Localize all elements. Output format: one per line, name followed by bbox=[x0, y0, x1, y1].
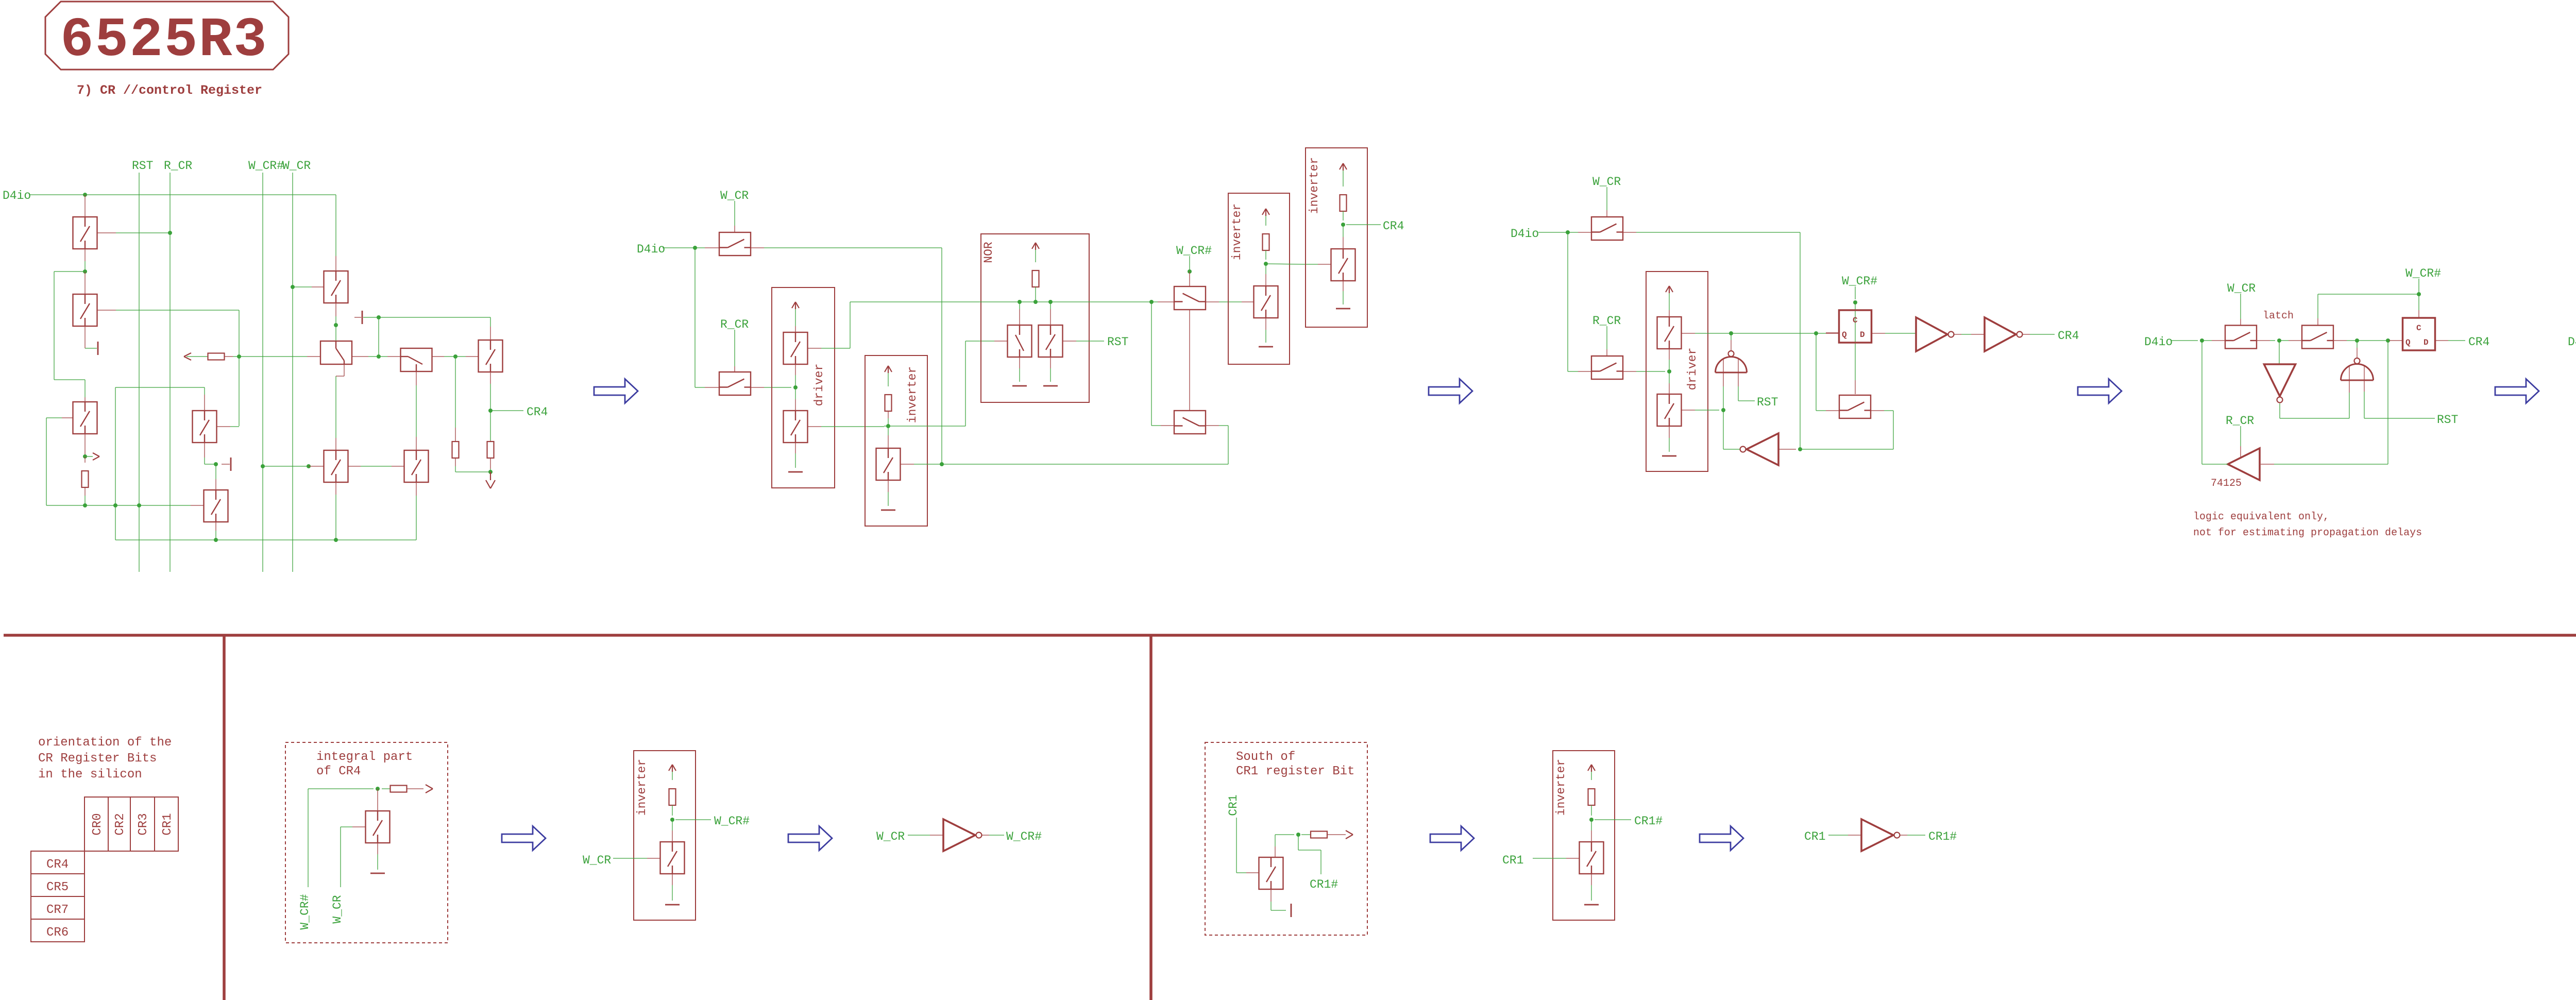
pass transistor R_CR stage3 bbox=[1591, 356, 1623, 379]
wire T3 gate from lower net bbox=[62, 417, 73, 418]
svg-text:RST: RST bbox=[1107, 335, 1128, 349]
svg-text:W_CR: W_CR bbox=[720, 189, 749, 202]
wire W_CR stem stage4 bbox=[2240, 294, 2241, 319]
svg-text:W_CR#: W_CR# bbox=[248, 159, 284, 173]
transistor T4 stage1 bbox=[193, 411, 217, 443]
wire B to latch stage4 bbox=[2333, 340, 2347, 341]
wire D4io stage2 bbox=[663, 247, 695, 248]
svg-text:CR4: CR4 bbox=[1383, 219, 1404, 233]
resistor bottom CR1 inverter bbox=[1588, 789, 1595, 805]
wire bottom rail y1048 stage1 bbox=[115, 539, 416, 540]
wire CR1 to gate south box bbox=[1236, 818, 1237, 873]
svg-text:inverter: inverter bbox=[1230, 204, 1244, 260]
power arrow driver stage3 bbox=[1666, 286, 1669, 292]
wire T8 gate from W_CR# bbox=[261, 464, 265, 468]
svg-text:W_CR: W_CR bbox=[331, 895, 344, 923]
svg-text:RST: RST bbox=[132, 159, 153, 173]
svg-text:74125: 74125 bbox=[2211, 478, 2242, 489]
RST inverter triangle stage3 bbox=[1747, 433, 1778, 465]
transistor T11 stage1 bbox=[479, 340, 503, 372]
driver upper transistor stage2 bbox=[784, 332, 808, 364]
svg-text:of CR4: of CR4 bbox=[316, 765, 361, 778]
flow arrow stage2 to stage3 bbox=[1429, 379, 1472, 403]
wire gate bottom CR1 inverter bbox=[1533, 858, 1566, 859]
svg-text:W_CR: W_CR bbox=[2227, 282, 2256, 295]
wire upper pass output stage2 bbox=[1206, 301, 1219, 302]
wire T4 to T5 bbox=[204, 443, 205, 457]
divider horizontal bbox=[4, 634, 2576, 637]
svg-text:R_CR: R_CR bbox=[720, 318, 749, 331]
svg-text:CR1: CR1 bbox=[1227, 794, 1240, 816]
svg-text:D4io: D4io bbox=[3, 189, 31, 202]
inverter1 block frame stage2 bbox=[1228, 193, 1290, 364]
svg-text:Q: Q bbox=[2405, 338, 2411, 347]
svg-text:driver: driver bbox=[1686, 348, 1699, 391]
pass transistor south box bbox=[1259, 857, 1283, 889]
wire latch D to CR4 stage4 bbox=[2435, 340, 2449, 341]
wire NAND right leg to RST stage3 bbox=[1738, 372, 1739, 386]
junction T1-T2 bbox=[84, 249, 86, 261]
wire T2 gate line bbox=[97, 310, 116, 311]
wire W_CR pass output stage3 bbox=[1623, 232, 1636, 233]
wire CR1 to triangle bbox=[1828, 835, 1848, 836]
wire mid node bottom CR1 inverter bbox=[1589, 818, 1594, 822]
wire T5 bottom to rail bbox=[215, 522, 216, 531]
wire NAND left leg stage3 bbox=[1723, 372, 1724, 386]
driver ground stage3 bbox=[1669, 426, 1670, 438]
arrow right at T3 node bbox=[87, 456, 93, 457]
wire gate net y981 stage1 bbox=[46, 505, 191, 506]
74125 buffer stage4 bbox=[2228, 448, 2260, 480]
resistor to bus arrow bottom box bbox=[382, 788, 390, 789]
latch box stage4 bbox=[2403, 318, 2435, 350]
svg-text:driver: driver bbox=[812, 364, 826, 406]
power arrow NOR stage2 bbox=[1032, 243, 1036, 249]
dashed box integral part of CR4 bbox=[285, 742, 448, 943]
wire R_CR to 74125 enable stage4 bbox=[2240, 426, 2241, 446]
power arrow driver stage2 bbox=[792, 302, 795, 308]
svg-text:in the silicon: in the silicon bbox=[38, 768, 142, 782]
latch box stage3 bbox=[1839, 310, 1872, 343]
wire NOR output net stage2 bbox=[850, 301, 1158, 302]
wire driver lower gate stage2 bbox=[808, 426, 822, 427]
svg-text:W_CR: W_CR bbox=[282, 159, 311, 173]
wire W_CR# column stage1 bbox=[262, 173, 263, 572]
wire W_CR# stem stage3 bbox=[1855, 286, 1856, 299]
wire W_CR stem stage2 bbox=[734, 201, 735, 226]
svg-text:W_CR#: W_CR# bbox=[1842, 275, 1877, 288]
driver block frame stage2 bbox=[772, 287, 835, 488]
svg-text:R_CR: R_CR bbox=[2226, 414, 2254, 428]
wire latch feedback stage3 bbox=[1889, 449, 1893, 450]
wire lower pass right loop stage2 bbox=[1206, 425, 1219, 426]
pass transistor A stage4 bbox=[2225, 326, 2257, 349]
svg-text:R_CR: R_CR bbox=[164, 159, 192, 173]
wire latch D stage3 bbox=[1872, 333, 1886, 334]
capacitor bar below T2 bbox=[84, 326, 86, 348]
wire T7 bottom to T8 bbox=[344, 364, 345, 376]
wire RST column stage1 bbox=[139, 173, 140, 572]
inverter triangle down stage4 bbox=[2279, 341, 2280, 364]
wire W_CR stem stage3 bbox=[1606, 187, 1607, 210]
driver lower transistor stage2 bbox=[784, 411, 808, 443]
flow arrow stage3 to stage4 bbox=[2078, 379, 2122, 403]
svg-text:W_CR#: W_CR# bbox=[714, 815, 750, 828]
wire T11 gate bbox=[455, 356, 466, 357]
wire R1 bottom to gate net bbox=[84, 487, 86, 496]
wire gate bottom W_CR inverter bbox=[613, 858, 647, 859]
svg-text:CR3: CR3 bbox=[137, 813, 150, 835]
svg-text:CR0: CR0 bbox=[91, 813, 105, 835]
svg-text:inverter: inverter bbox=[1308, 157, 1321, 214]
wire CR4 output stage3 bbox=[2023, 334, 2030, 335]
arrow left with resistor stage1 bbox=[184, 353, 191, 357]
resistor inverter1 stage2 bbox=[1263, 234, 1269, 250]
wire between buffers stage3 bbox=[1954, 334, 1961, 335]
svg-text:R_CR: R_CR bbox=[1592, 314, 1621, 328]
svg-text:CR2: CR2 bbox=[113, 813, 127, 835]
ground bottom CR1 inverter bbox=[1591, 874, 1592, 885]
buffer triangle 2 stage3 bbox=[1985, 317, 2016, 351]
divider vertical middle bbox=[1149, 635, 1153, 1000]
wire 74125 output stage4 bbox=[2202, 464, 2228, 465]
inverter triangle W_CR bbox=[943, 819, 975, 851]
wire driver channel stage3 bbox=[1669, 349, 1670, 360]
svg-text:CR4: CR4 bbox=[527, 405, 548, 419]
wire T6 gate to W_CR bbox=[291, 285, 295, 289]
wire triangle to CR1# bbox=[1900, 835, 1907, 836]
buffer triangle 1 stage3 bbox=[1916, 317, 1947, 351]
inverter2 ground stage2 bbox=[1343, 281, 1344, 291]
transistor T2 stage1 bbox=[84, 380, 86, 397]
inverter1 transistor stage2 bbox=[1265, 264, 1266, 274]
wire T7 right to junction bbox=[352, 356, 368, 357]
svg-text:CR Register Bits: CR Register Bits bbox=[38, 752, 157, 766]
NAND gate stage4 bbox=[2341, 364, 2374, 380]
inverter1 ground stage2 bbox=[1265, 318, 1266, 330]
wire inverter mid to transistor stage2 bbox=[888, 426, 889, 435]
wire latch clock stage4 bbox=[2418, 294, 2419, 310]
wire lower pass left pin stage2 bbox=[1151, 425, 1161, 426]
svg-text:NOR: NOR bbox=[982, 242, 995, 263]
driver ground stage2 bbox=[795, 443, 796, 453]
wire RST inverter output stage3 bbox=[1723, 449, 1740, 450]
transistor bottom W_CR inverter bbox=[672, 820, 673, 830]
transistor T1 stage1 bbox=[84, 195, 86, 217]
wire CR1# branch south box bbox=[1298, 835, 1299, 850]
pass transistor bottom box bbox=[377, 789, 378, 811]
svg-text:CR4: CR4 bbox=[2058, 329, 2079, 343]
wire rail up to T10 bbox=[416, 496, 417, 540]
pass transistor B stage4 bbox=[2302, 326, 2333, 349]
flow arrow bottom 4 bbox=[1700, 826, 1743, 851]
wire latch clock stage3 bbox=[1855, 302, 1856, 380]
power arrow bottom CR1 inverter bbox=[1588, 765, 1591, 771]
wire driver upper gate stage2 bbox=[808, 348, 822, 349]
wire inverter mid node stage2 bbox=[888, 411, 889, 418]
ground bottom box bbox=[377, 843, 378, 854]
svg-text:6525R3: 6525R3 bbox=[60, 9, 268, 72]
inverter block frame bottom CR1 bbox=[1553, 751, 1615, 920]
wire loop around stage1 bbox=[115, 387, 205, 388]
svg-text:CR1#: CR1# bbox=[1310, 878, 1338, 891]
wire inverter1 mid node stage2 bbox=[1264, 262, 1268, 266]
flow arrow bottom 1 bbox=[502, 826, 546, 851]
NOR left ground stage2 bbox=[1019, 357, 1020, 368]
wire upper pass left pin stage2 bbox=[1151, 302, 1152, 426]
svg-text:7) CR //control Register: 7) CR //control Register bbox=[77, 83, 262, 98]
NAND gate stage3 bbox=[1716, 357, 1747, 372]
power arrow inverter2 stage2 bbox=[1340, 163, 1343, 170]
transistor T9 stage1 horizontal bbox=[401, 348, 432, 371]
wire T6 to T7 bbox=[335, 303, 336, 316]
svg-text:D4io: D4io bbox=[1511, 227, 1539, 241]
svg-text:W_CR#: W_CR# bbox=[1006, 830, 1042, 843]
wire R_CR stem stage2 bbox=[734, 330, 735, 366]
svg-text:W_CR#: W_CR# bbox=[298, 894, 312, 929]
wire output node south box bbox=[1275, 846, 1276, 857]
svg-text:integral part: integral part bbox=[316, 750, 413, 764]
flow arrow bottom 2 bbox=[788, 826, 832, 851]
svg-text:C: C bbox=[2416, 324, 2421, 333]
transistor T10 stage1 bbox=[404, 450, 429, 482]
wire NAND right leg to RST stage4 bbox=[2364, 380, 2365, 392]
wire triangle to W_CR# bbox=[982, 835, 989, 836]
wire T9 bottom to T10 bbox=[416, 371, 417, 386]
resistor R1 stage1 bbox=[84, 456, 86, 463]
transistor T7 stage1 horizontal bbox=[320, 341, 352, 364]
wire W_CR# branch bottom box bbox=[308, 789, 309, 887]
inverter triangle CR1 bbox=[1861, 819, 1893, 851]
svg-text:CR7: CR7 bbox=[46, 903, 69, 917]
svg-text:inverter: inverter bbox=[1554, 759, 1568, 816]
node CR4 label stage1 bbox=[490, 410, 523, 411]
wire W_CR pass output stage2 bbox=[751, 247, 764, 248]
resistor R3 stage1 bbox=[490, 411, 491, 440]
wire mid node bottom W_CR inverter bbox=[670, 818, 674, 822]
inverter ground stage2 bbox=[888, 480, 889, 492]
wire B gate to W_CR# stage4 bbox=[2317, 318, 2318, 326]
svg-text:orientation of the: orientation of the bbox=[38, 736, 172, 750]
divider vertical left bbox=[223, 635, 226, 1000]
svg-text:D: D bbox=[1860, 330, 1865, 340]
resistor to bus arrow south box bbox=[1301, 834, 1311, 835]
capacitor bar above T11 net bbox=[362, 311, 363, 324]
svg-text:South of: South of bbox=[1236, 750, 1295, 764]
wire inverter2 mid node stage2 bbox=[1341, 223, 1345, 227]
transistor bottom CR1 inverter bbox=[1591, 820, 1592, 830]
flow arrow stage4 to stage5 bbox=[2495, 379, 2539, 403]
svg-text:CR4: CR4 bbox=[46, 858, 69, 872]
wire feedback down stage4 bbox=[2387, 341, 2388, 464]
inverter2 block frame stage2 bbox=[1306, 148, 1367, 327]
wire driver lower gate stage3 bbox=[1682, 410, 1696, 411]
power arrow inverter1 stage2 bbox=[1262, 209, 1266, 215]
pass transistor W_CR stage3 bbox=[1591, 217, 1623, 240]
svg-text:W_CR: W_CR bbox=[876, 830, 905, 843]
wire W_CR# stem stage4 bbox=[2418, 279, 2419, 294]
NOR right ground stage2 bbox=[1050, 357, 1051, 368]
pass transistor R_CR stage2 bbox=[719, 372, 751, 395]
pass transistor W_CR stage2 bbox=[719, 232, 751, 256]
title octagon frame bbox=[45, 2, 289, 70]
driver upper transistor stage3 bbox=[1657, 317, 1682, 349]
wire D4io stage3 bbox=[1538, 232, 1568, 233]
svg-text:RST: RST bbox=[2437, 413, 2458, 427]
svg-text:CR6: CR6 bbox=[46, 926, 69, 940]
wire T8 bottom bbox=[335, 482, 336, 495]
wire T10 gate from T8 bbox=[348, 466, 361, 467]
resistor bottom W_CR inverter bbox=[669, 789, 676, 805]
NOR left transistor stage2 bbox=[1019, 302, 1020, 309]
svg-text:CR1#: CR1# bbox=[1928, 830, 1957, 843]
wire RST inverter input stage3 bbox=[1778, 449, 1796, 450]
ground arrow down stage1 bbox=[490, 472, 491, 480]
svg-text:W_CR: W_CR bbox=[1592, 175, 1621, 189]
pass transistor W_CR# upper stage2 bbox=[1174, 286, 1206, 310]
junction T3 drain with right arrow bbox=[84, 434, 86, 456]
wire W_CR column stage1 bbox=[292, 173, 293, 572]
dashed box South of CR1 register Bit bbox=[1205, 742, 1367, 935]
svg-text:CR1: CR1 bbox=[161, 813, 175, 835]
wire CR4 output stage2 bbox=[1346, 224, 1381, 225]
svg-text:inverter: inverter bbox=[906, 366, 919, 423]
wire feedback left stage1 bbox=[54, 271, 85, 272]
svg-text:latch: latch bbox=[2263, 310, 2294, 322]
wire NAND output stage4 bbox=[2357, 341, 2358, 348]
svg-text:D4io: D4io bbox=[2144, 335, 2173, 349]
power arrow bottom W_CR inverter bbox=[669, 765, 672, 771]
wire W_CR gate bottom box bbox=[340, 827, 341, 887]
wire driver channel stage2 bbox=[795, 364, 796, 375]
NOR block frame stage2 bbox=[981, 234, 1089, 402]
transistor T8 stage1 bbox=[324, 450, 348, 482]
wire W_CR# stem stage2 bbox=[1189, 256, 1190, 272]
svg-text:CR1: CR1 bbox=[1502, 854, 1523, 867]
wire NAND output stage3 bbox=[1731, 333, 1732, 340]
flow arrow bottom 3 bbox=[1430, 826, 1474, 851]
svg-text:not for estimating propagation: not for estimating propagation delays bbox=[2193, 527, 2422, 539]
wire NOR left gate stage2 bbox=[994, 341, 1008, 342]
transistor T6 stage1 bbox=[29, 194, 30, 195]
svg-text:Q: Q bbox=[1842, 330, 1847, 340]
capacitor bar at T4-T5 node bbox=[222, 464, 230, 465]
driver block frame stage3 bbox=[1646, 272, 1708, 471]
wire R_CR column stage1 bbox=[170, 173, 171, 572]
wire D4io stage1 bbox=[29, 194, 336, 195]
svg-text:CR1 register Bit: CR1 register Bit bbox=[1236, 765, 1354, 778]
wire D4io to R_CR pass stage2 bbox=[694, 248, 696, 387]
wire W_CR# gate chain stage2 bbox=[1189, 309, 1190, 411]
wire latch Q stage3 bbox=[1826, 332, 1839, 333]
wire D4io stage4 bbox=[2171, 340, 2198, 341]
resistor inverter2 stage2 bbox=[1340, 195, 1347, 211]
wire driver upper gate stage3 bbox=[1682, 333, 1696, 334]
wire T7 gate from resistor net bbox=[239, 356, 307, 357]
svg-text:W_CR#: W_CR# bbox=[2405, 267, 2441, 280]
svg-text:RST: RST bbox=[1757, 396, 1778, 409]
driver lower transistor stage3 bbox=[1657, 394, 1682, 426]
svg-text:W_CR: W_CR bbox=[583, 854, 611, 867]
table CR left column bbox=[31, 851, 84, 942]
inverter2 transistor stage2 bbox=[1331, 249, 1355, 281]
latch pass transistor stage3 bbox=[1839, 395, 1871, 418]
capacitor bar south box bbox=[1270, 889, 1272, 902]
ground bottom W_CR inverter bbox=[672, 874, 673, 885]
wire T11 to CR4 node bbox=[490, 372, 491, 384]
wire W_CR to triangle bbox=[908, 835, 930, 836]
inverter transistor stage2 bbox=[876, 448, 901, 480]
svg-text:logic equivalent only,: logic equivalent only, bbox=[2193, 511, 2329, 523]
wire latch Q net down stage3 bbox=[1816, 333, 1817, 411]
power arrow inverter stage2 bbox=[885, 366, 888, 372]
svg-text:C: C bbox=[1853, 316, 1858, 325]
svg-text:CR1: CR1 bbox=[1804, 830, 1825, 843]
NOR right transistor stage2 bbox=[1050, 302, 1051, 309]
svg-text:D4io: D4io bbox=[637, 243, 665, 256]
wire R_CR pass output stage2 bbox=[751, 387, 764, 388]
table CR top row bbox=[84, 797, 178, 851]
pass transistor W_CR# lower stage2 bbox=[1174, 411, 1206, 434]
wire T4 gate to T2 gate net bbox=[217, 426, 231, 427]
svg-text:D4io: D4io bbox=[2568, 335, 2576, 349]
wire down inverter output stage4 bbox=[2279, 403, 2280, 418]
transistor T3 stage1 bbox=[73, 402, 97, 434]
wire R_CR pass output stage3 bbox=[1623, 371, 1636, 372]
wire inverter gate stage2 bbox=[901, 464, 914, 465]
wire A to B stage4 bbox=[2257, 340, 2270, 341]
inverter block frame bottom W_CR bbox=[634, 751, 696, 920]
svg-text:D: D bbox=[2424, 338, 2429, 347]
inverter block frame stage2 bbox=[865, 355, 927, 526]
resistor R2 stage1 bbox=[455, 357, 456, 428]
svg-text:CR5: CR5 bbox=[46, 880, 69, 894]
wire R_CR stem stage3 bbox=[1606, 326, 1607, 349]
svg-text:CR1#: CR1# bbox=[1634, 815, 1663, 828]
transistor T5 stage1 bbox=[204, 490, 228, 522]
svg-text:inverter: inverter bbox=[635, 759, 649, 816]
flow arrow stage1 to stage2 bbox=[594, 379, 638, 403]
wire T1 gate to R_CR bbox=[97, 232, 116, 233]
svg-text:W_CR#: W_CR# bbox=[1176, 244, 1212, 258]
wire D4io to R_CR pass stage3 bbox=[1567, 232, 1568, 371]
wire NOR right gate to RST stage2 bbox=[1063, 341, 1077, 342]
wire bar to T11 top bbox=[363, 317, 490, 318]
resistor NOR stage2 bbox=[1032, 270, 1039, 287]
wire T9 pins bbox=[379, 356, 387, 357]
svg-text:CR4: CR4 bbox=[2468, 335, 2489, 349]
resistor inverter stage2 bbox=[885, 395, 892, 411]
